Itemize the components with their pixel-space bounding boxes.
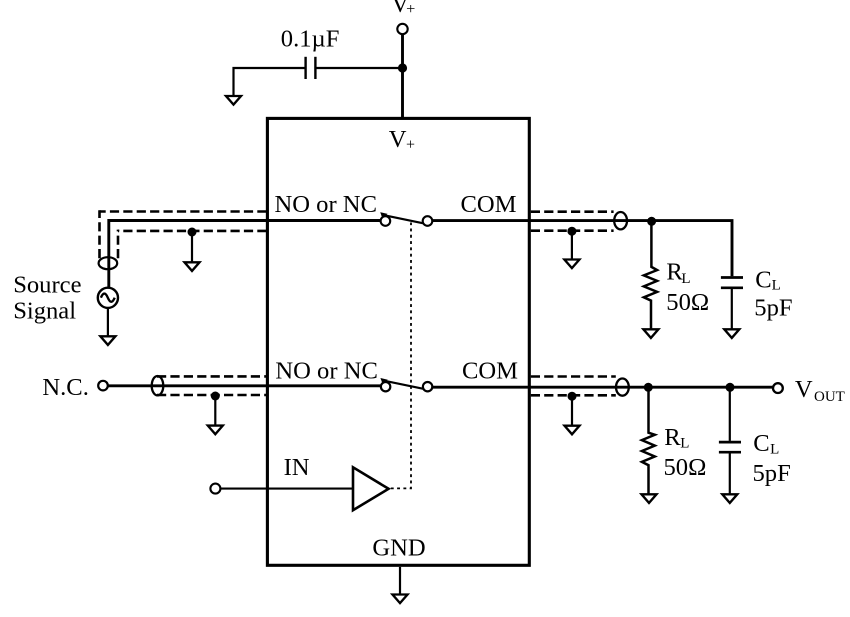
ground (row 2 left shield) (208, 426, 223, 435)
coax ellipse (row 1 left) (99, 257, 118, 269)
svg-text:NO or NC: NO or NC (275, 358, 377, 385)
switch blade (row 1) (382, 215, 423, 224)
wire shield to ground (row 2 right) (571, 396, 573, 426)
wire source to ground (107, 308, 109, 336)
wire V+ terminal to box (401, 34, 404, 118)
svg-text:COM: COM (462, 357, 518, 384)
wire CL to ground (row 1) (731, 289, 733, 329)
resistor RL (row 2) (642, 387, 655, 494)
coax shield upper dashed (row 2 right) (531, 375, 616, 378)
wire capacitor to ground (234, 68, 306, 96)
switch pole circle left (row 1) (381, 216, 391, 226)
switch throw circle right (row 1) (423, 216, 433, 226)
wire shield to ground (row 1 right) (571, 231, 573, 259)
coax shield lower dashed (row 2 left) (157, 394, 267, 397)
svg-text:GND: GND (372, 535, 425, 562)
terminal VOUT (773, 383, 783, 393)
svg-text:+: + (406, 136, 415, 153)
coax shield upper dashed (row 2 left) (157, 375, 267, 378)
junction shield ground (row 2 right) (568, 392, 577, 401)
junction CL (row 2) (726, 383, 735, 392)
junction shield ground (row 1 right) (567, 227, 576, 236)
terminal IN (210, 484, 220, 494)
wire to CL (row 2) (729, 387, 731, 441)
svg-text:C: C (753, 430, 769, 457)
ground (CL row 1) (724, 329, 739, 338)
coax shield lower dashed (row 1 right) (531, 229, 614, 232)
wire junction to capacitor (315, 67, 402, 69)
wire source to switch NO (row 1) (109, 221, 381, 288)
capacitor CL plates (row 2) (719, 441, 741, 444)
coax shield lower dashed (row 2 right) (531, 394, 616, 397)
junction shield ground (row 2 left) (211, 392, 220, 401)
coax shield lower dashed (row 1 left) (118, 230, 267, 233)
svg-text:N.C.: N.C. (42, 374, 88, 401)
junction RL (row 2) (644, 383, 653, 392)
coax shield upper dashed (row 1 right) (531, 210, 614, 213)
ground (row 1 right shield) (564, 260, 579, 269)
buffer driver triangle (353, 467, 389, 510)
ground (bypass cap) (226, 96, 241, 105)
svg-text:V: V (389, 126, 407, 153)
junction RL (row 1) (647, 217, 656, 226)
svg-text:5pF: 5pF (754, 295, 792, 322)
svg-text:L: L (680, 436, 689, 452)
svg-text:L: L (772, 277, 781, 293)
ground (source) (100, 336, 115, 345)
svg-text:IN: IN (284, 454, 310, 481)
wire N.C. to switch (row 2) (108, 384, 381, 387)
svg-text:C: C (755, 266, 771, 293)
svg-text:OUT: OUT (814, 389, 845, 405)
coax ellipse (row 1 right) (614, 212, 627, 229)
wire CL to ground (row 2) (729, 454, 731, 495)
junction shield ground (row 1 left) (188, 228, 197, 237)
terminal V+ (397, 24, 407, 34)
ground (row 2 right shield) (565, 426, 580, 435)
switch throw circle right (row 2) (423, 382, 432, 391)
coax ellipse (row 2 left) (152, 376, 164, 395)
svg-text:V: V (795, 376, 813, 403)
coax ellipse (row 2 right) (616, 379, 629, 396)
wire GND pin (399, 567, 401, 595)
switch pole circle left (row 2) (381, 382, 390, 391)
svg-text:NO or NC: NO or NC (275, 191, 377, 218)
dotted control link buffer to switches (391, 223, 411, 489)
terminal N.C. (98, 381, 108, 391)
wire COM (row 2) to VOUT (432, 386, 773, 389)
wire IN to buffer (221, 488, 354, 490)
switch blade (row 2) (382, 380, 423, 389)
wire COM (row 1) to load (432, 221, 732, 277)
svg-text:0.1µF: 0.1µF (281, 26, 340, 53)
svg-text:5pF: 5pF (753, 460, 791, 487)
ground (RL row 2) (642, 494, 657, 503)
ground (GND pin) (393, 595, 408, 604)
svg-text:COM: COM (461, 191, 517, 218)
source signal sine generator (98, 288, 118, 308)
svg-text:R: R (664, 424, 681, 451)
ground (CL row 2) (722, 494, 737, 503)
svg-text:50Ω: 50Ω (666, 289, 709, 316)
wire shield to ground (row 1 left) (191, 232, 193, 262)
svg-text:50Ω: 50Ω (664, 454, 707, 481)
svg-text:Source: Source (13, 271, 81, 298)
ground (row 1 left shield) (185, 262, 200, 271)
svg-text:L: L (770, 442, 779, 458)
capacitor CL plates (row 1) (721, 276, 743, 279)
svg-text:L: L (681, 271, 690, 287)
wire shield to ground (row 2 left) (214, 396, 216, 426)
ground (RL row 1) (643, 329, 658, 338)
junction V+/bypass (398, 63, 407, 72)
coax shield upper dashed (row 1 left) (100, 210, 267, 213)
svg-text:+: + (406, 0, 415, 18)
capacitor 0.1uF plates (314, 57, 316, 79)
svg-text:Signal: Signal (13, 297, 76, 324)
resistor RL (row 1) (644, 221, 657, 329)
IC box (267, 118, 529, 565)
